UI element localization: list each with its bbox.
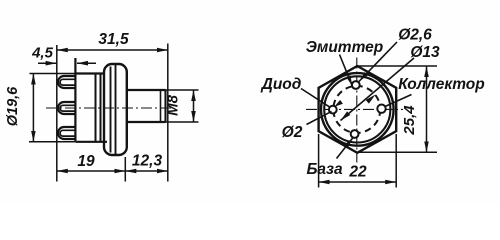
extension line: flange seat plane [124,157,126,182]
pin lead 1 (top) [58,76,76,88]
dimension D19,6 [29,74,75,142]
pin collector (right) [377,105,385,113]
rim weld lines [95,74,97,142]
hex flange (side) [104,64,127,155]
axis centerline (left view) [46,107,174,109]
svg-text:Коллектор: Коллектор [398,76,484,93]
svg-text:19: 19 [77,153,95,170]
leader base [337,138,354,159]
svg-text:Ø19,6: Ø19,6 [5,86,21,126]
dimension 25,4 [355,66,437,152]
pin base (bottom) [351,130,359,138]
svg-text:Ø2,6: Ø2,6 [398,27,432,44]
threaded stud M8 [127,90,166,122]
pin emitter (top) [352,81,360,89]
dimension 12,3 [125,170,168,172]
dimension 4,5 (outside arrows) [38,62,96,64]
pin circle D13 (dashed) [333,86,380,133]
vertical centerline [356,58,358,163]
leader diode [301,89,329,107]
pin diode (left) [329,106,337,114]
svg-text:31,5: 31,5 [98,31,129,48]
dimension 19 [57,170,126,172]
pin lead 3 (bottom) [58,127,76,139]
dimension M8 [163,90,199,122]
svg-text:Эмиттер: Эмиттер [306,39,384,56]
dimension D13 diagonal [341,58,415,121]
svg-text:25,4: 25,4 [401,105,418,136]
svg-text:4,5: 4,5 [31,45,54,62]
extension line: right end (stud tip) [167,44,169,182]
dimension 31,5 [57,49,168,51]
svg-text:22: 22 [348,164,367,181]
leader D2,6 [359,42,397,82]
body circle inner (chamfer) [324,76,390,142]
horizontal centerline [306,108,403,110]
leader collector [385,95,412,107]
svg-text:Ø13: Ø13 [410,44,440,61]
extension line: pin-tip plane (left) [56,45,58,182]
hex body outline [319,66,397,153]
leader emitter [340,55,353,87]
leader D2 [307,111,332,124]
svg-text:База: База [306,161,343,178]
svg-text:Диод: Диод [260,76,302,93]
dimension 22 [319,134,397,188]
svg-text:Ø2: Ø2 [282,124,303,141]
svg-text:12,3: 12,3 [132,153,163,170]
pin lead 2 (middle) [58,102,76,114]
body (cap cylinder) [75,58,107,142]
body circle outer [321,73,394,146]
